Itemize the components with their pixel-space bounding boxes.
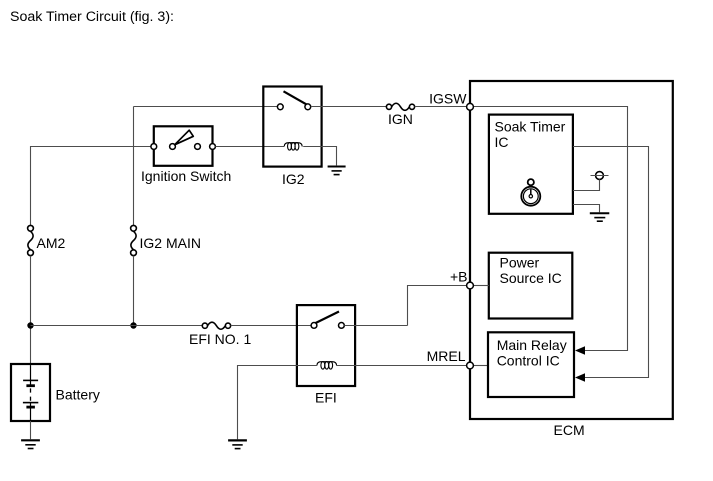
EFI coil — [317, 362, 337, 370]
stopwatch icon — [521, 179, 540, 206]
IG2 switch contacts — [277, 104, 310, 110]
ignition switch contacts — [151, 144, 216, 150]
EFI switch blade — [316, 312, 339, 324]
battery cells — [23, 365, 38, 421]
Power Source IC box — [489, 253, 573, 319]
wire: ignition switch level left, down to AM2 column — [31, 147, 155, 226]
wire: ignition switch to IG2 coil — [215, 146, 284, 148]
ground (soak timer) — [590, 213, 610, 221]
relay IG2 box — [263, 87, 321, 167]
svg-text:IG2 MAIN: IG2 MAIN — [140, 235, 201, 251]
svg-text:IGN: IGN — [388, 111, 413, 127]
svg-text:Soak Timer: Soak Timer — [495, 118, 566, 134]
wire: IG2 coil to box right, to ground — [303, 147, 336, 166]
fuse EFI NO. 1 — [202, 322, 230, 329]
wire: battery to ground — [30, 421, 32, 439]
svg-text:IC: IC — [495, 134, 509, 150]
node MREL — [467, 362, 474, 369]
wire: IG2 MAIN column (top wire y107 down to bus) — [133, 107, 135, 226]
wire: IG2 MAIN fuse to bus — [133, 256, 135, 326]
wire: main bus from battery column to EFI NO.1 fuse — [31, 325, 203, 327]
wire: IGSW into ECM, down right side, arrow to Main Relay Control IC — [473, 107, 627, 351]
wire: EFI NO.1 fuse to EFI relay — [231, 325, 312, 327]
ground (battery) — [21, 440, 40, 448]
fuse IG2 MAIN — [131, 225, 137, 255]
svg-text:Soak Timer Circuit (fig. 3):: Soak Timer Circuit (fig. 3): — [10, 9, 174, 25]
IG2 coil — [284, 143, 302, 151]
wire: soak timer output to right, down, arrow into Main Relay Control IC (lower) — [573, 147, 649, 378]
wire: terminal to soak timer IC — [573, 179, 600, 190]
battery box — [11, 364, 50, 421]
svg-text:Battery: Battery — [56, 387, 100, 403]
ignition switch box — [154, 126, 213, 166]
ignition switch key lever — [175, 130, 194, 145]
node IGSW — [467, 103, 474, 110]
terminal circle (battery terminal symbol) — [591, 172, 609, 180]
wire: EFI switch right side up to +B corner — [344, 325, 407, 327]
wire: soak timer IC to ground — [573, 205, 600, 213]
svg-text:AM2: AM2 — [37, 235, 66, 251]
svg-text:Source IC: Source IC — [500, 270, 562, 286]
fuse IGN — [386, 103, 414, 110]
wire: EFI coil left to ground drop — [238, 366, 317, 440]
EFI switch contacts — [311, 323, 344, 329]
ground (IG2 coil) — [328, 167, 346, 175]
svg-text:ECM: ECM — [554, 422, 585, 438]
wire: IG2 switch to IGN fuse — [311, 106, 387, 108]
wire: EFI coil right to MREL node and into Main Relay Control IC — [337, 365, 467, 367]
relay EFI box — [297, 305, 355, 386]
svg-text:IG2: IG2 — [282, 171, 305, 187]
Main Relay Control IC box — [488, 332, 574, 397]
wire: AM2 fuse to battery — [30, 256, 32, 364]
ground (EFI coil) — [228, 440, 247, 448]
fuse AM2 — [28, 225, 34, 255]
wire: EFI switch up to +B node and into Power Source IC — [408, 286, 467, 326]
node +B — [467, 282, 474, 289]
arrowhead into Main Relay Control IC (lower) — [575, 373, 585, 381]
svg-text:Power: Power — [500, 254, 540, 270]
IG2 switch blade — [284, 91, 307, 104]
svg-text:Ignition Switch: Ignition Switch — [141, 168, 231, 184]
svg-text:EFI: EFI — [315, 389, 337, 405]
arrowhead into Main Relay Control IC (upper) — [575, 346, 585, 354]
svg-text:IGSW: IGSW — [429, 91, 467, 107]
junction dot at AM2/bus — [27, 322, 33, 328]
svg-text:+B: +B — [450, 269, 468, 285]
svg-text:Main Relay: Main Relay — [497, 337, 567, 353]
ECM box — [470, 81, 673, 419]
svg-text:EFI NO. 1: EFI NO. 1 — [189, 331, 251, 347]
svg-text:MREL: MREL — [427, 348, 466, 364]
svg-text:Control IC: Control IC — [497, 352, 560, 368]
Soak Timer IC box — [489, 115, 573, 214]
junction dot at IG2 MAIN/bus — [130, 322, 136, 328]
wire: IGSW level from IG2 MAIN column to IG2 relay — [134, 106, 278, 108]
wire: IGN fuse to IGSW node — [415, 106, 467, 108]
